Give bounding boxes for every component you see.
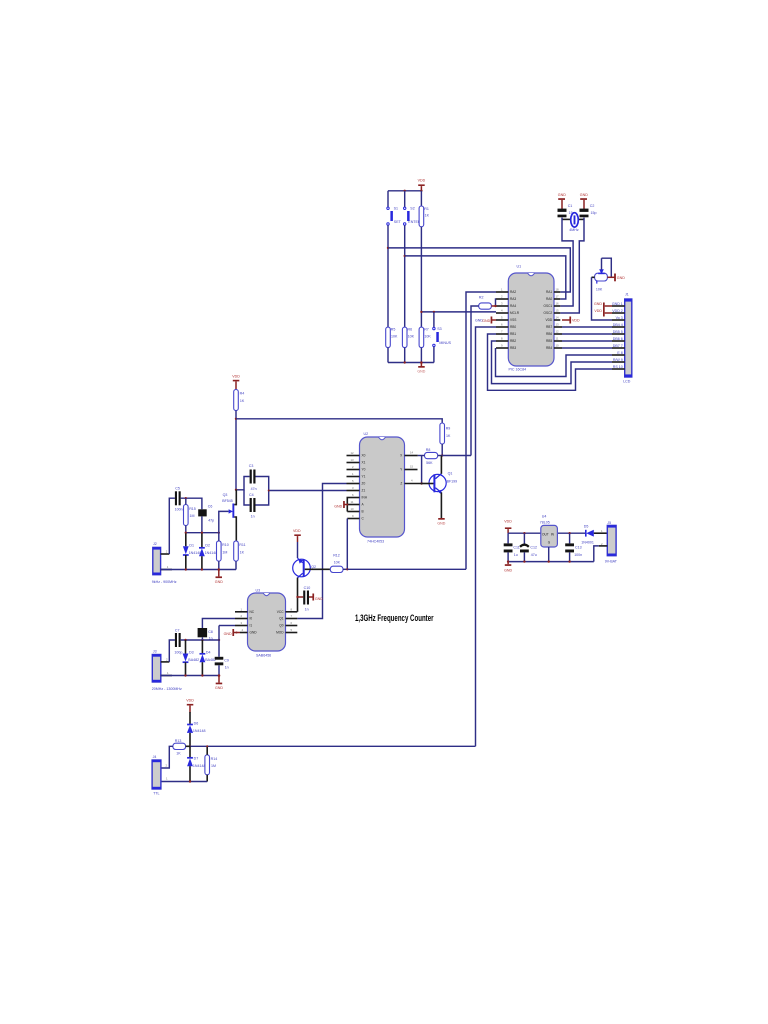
svg-text:GND: GND [504,568,512,572]
wire R12 right to junction [343,568,347,570]
svg-text:NC: NC [250,610,255,614]
svg-text:C10: C10 [304,586,311,590]
junction (201.9,569.5) [201,568,203,570]
svg-text:MCLR: MCLR [510,311,520,315]
svg-text:J5: J5 [607,521,611,525]
U1 left pin names [510,290,520,350]
wire R2 left column down to counter input node [471,306,479,456]
svg-text:GND: GND [437,522,445,526]
svg-text:100n: 100n [175,508,183,512]
svg-text:J3: J3 [153,649,157,653]
svg-text:VDD: VDD [594,309,602,313]
svg-text:RB0: RB0 [510,325,516,329]
svg-text:DB5 5: DB5 5 [613,330,623,334]
wire supply ground rail [508,561,594,563]
junction (404.7,190.8) [404,190,406,192]
power VDD (Q2) [293,529,301,542]
svg-text:Q3: Q3 [223,493,228,497]
svg-text:GND: GND [594,302,602,306]
op-amp U3 SAB6456 body [248,588,286,657]
svg-text:RA0: RA0 [546,297,552,301]
junction (185.5,675.5) [184,674,186,676]
svg-text:J1: J1 [625,292,629,296]
wire RB5 to LCD pin6 [562,340,612,342]
svg-text:9kHz - 900MHz: 9kHz - 900MHz [152,580,177,584]
svg-text:C5: C5 [175,487,180,491]
junction (569.6,533.2) [568,532,570,534]
junction (524.4,533.2) [523,532,525,534]
wire bottom rail buttons [388,362,434,364]
svg-text:X1: X1 [362,461,366,465]
wire J3 pin2 up to C7 [169,640,175,662]
svg-text:D7: D7 [194,756,199,760]
svg-text:13: 13 [351,458,355,462]
diode D2 1N4148 [199,533,217,569]
svg-text:RB4: RB4 [546,346,552,350]
svg-text:100n: 100n [574,553,582,557]
J1 pin labels [612,302,623,369]
junction (421.4,190.8) [420,190,422,192]
svg-text:1K: 1K [240,551,245,555]
resistor R5 10K [386,327,398,348]
svg-text:GND: GND [215,580,223,584]
power VDD (J1 pin2) [594,309,612,317]
svg-text:Z: Z [400,482,402,486]
svg-text:BA482: BA482 [188,658,199,662]
svg-text:GND: GND [250,631,258,635]
connector J3 (input B) [152,649,182,691]
wire gate riser [219,511,229,532]
wire R15 bottom to bias bus [185,526,187,533]
wire supply top rail left [508,532,541,534]
svg-text:X0: X0 [362,454,366,458]
svg-text:Y1: Y1 [362,475,366,479]
resistor R10 1M [217,533,229,570]
capacitor C11 1u [504,533,520,561]
junction (268.7,490.5) [268,490,270,492]
svg-text:RB7: RB7 [546,325,552,329]
wire R5 bottom [387,348,389,363]
wire R9 bottom [441,444,443,456]
crystal Q4 4MHz [562,213,584,232]
power VDD (input3) [186,699,194,713]
svg-text:INH: INH [362,496,368,500]
svg-text:100p: 100p [174,650,182,654]
svg-text:RA4: RA4 [510,304,516,308]
svg-text:OSC2: OSC2 [544,311,553,315]
svg-text:1N4148: 1N4148 [205,551,218,555]
svg-text:17: 17 [556,295,560,299]
svg-text:1K: 1K [446,434,451,438]
svg-text:1n: 1n [251,515,255,519]
svg-text:GND: GND [580,193,588,197]
svg-text:56K: 56K [426,461,433,465]
wire RA3 jog to R2 node [495,299,498,306]
junction (185.8,498.2) [185,497,187,499]
svg-text:J2: J2 [153,542,157,546]
svg-text:1N4148: 1N4148 [193,729,206,733]
U3 right pin numbers [291,607,293,632]
junction (201.9,532.7) [201,532,203,534]
svg-text:15p: 15p [591,211,597,215]
resistor R4 1K [234,390,245,411]
svg-text:U3: U3 [256,588,261,592]
junction (190,781.5) [189,780,191,782]
junction (219,640) [218,639,220,641]
junction (236,489.8) [235,489,237,491]
resistor R9 1K [440,423,451,444]
svg-text:RS 10: RS 10 [613,365,623,369]
J5 pin2 stub and wire to ground rail [594,546,608,562]
U1 right pin numbers [556,288,560,348]
svg-text:VDD: VDD [504,520,512,524]
svg-text:BA482: BA482 [205,658,216,662]
J3 pin2 stub [161,661,170,663]
svg-text:13: 13 [556,323,560,327]
svg-text:1u: 1u [514,553,518,557]
svg-text:I1: I1 [250,624,253,628]
capacitor C7 100p [174,629,182,655]
resistor R6 10K [402,327,414,348]
svg-text:14: 14 [410,451,414,455]
U1 right pin stubs 18-10 [554,292,562,348]
junction (218.8,532.7) [218,532,220,534]
svg-text:47p: 47p [208,518,214,522]
svg-text:1K: 1K [425,214,430,218]
wire R13 right [186,745,190,747]
wire node S1 to RA1 riser [388,248,570,292]
svg-text:R7: R7 [424,328,429,332]
svg-text:VCC: VCC [277,610,284,614]
transistor Q3 BF545 (FET) [222,490,236,541]
svg-text:12: 12 [556,330,560,334]
svg-text:S3: S3 [437,327,441,331]
op-amp U2 74HC4053 body [360,432,405,544]
trimpot R3 10K (LCD contrast) [595,258,612,291]
svg-text:VDD: VDD [418,179,426,183]
svg-text:Q1: Q1 [279,617,283,621]
wire node S2 to RA0 riser [405,256,566,299]
svg-text:RB6: RB6 [546,332,552,336]
svg-text:1M: 1M [211,764,216,768]
power VDD (U1 pin14) [562,317,580,324]
svg-text:R1: R1 [424,207,429,211]
svg-text:C9: C9 [224,659,229,663]
svg-text:1n: 1n [305,607,309,611]
wire input3 bottom rail [161,781,207,783]
wire trimpot wiper to LCD pin3 [592,277,613,320]
ground (U1 VSS pin5) [475,317,496,324]
transistor Q1 BF199 [422,456,458,519]
wire top rail buttons [388,190,421,192]
J3 pin1 stub [161,675,172,677]
wire R13 left to J4 pin2 [161,746,173,768]
resistor R13 1K [173,739,186,756]
svg-text:11: 11 [351,500,354,504]
wire R1 column down to MCLR node [420,227,422,327]
U2 left pin stubs [347,456,360,519]
wire C7 right along diode node [181,639,219,641]
power VDD (buttons block) [418,179,426,191]
ground (C1) [558,193,566,209]
junction (219,675.5) [218,674,221,677]
wire S2 column down [404,225,406,327]
svg-text:D6: D6 [194,721,199,725]
svg-text:1n: 1n [209,637,213,641]
wire S2 top [404,191,406,207]
pushbutton S3 MINUS [433,327,452,347]
svg-text:1,3GHz Frequency Counter: 1,3GHz Frequency Counter [355,613,434,623]
diode D6 1N4148 [187,712,206,746]
junction (508.1,561.6) [507,560,509,562]
svg-text:D2: D2 [205,543,210,547]
svg-text:1K: 1K [240,399,245,403]
svg-text:C7: C7 [175,629,180,633]
junction (442.2,455.5) [441,454,443,456]
svg-text:R15: R15 [189,507,196,511]
wire RB4 to LCD pin7 [562,347,612,349]
svg-text:10K: 10K [596,288,603,292]
svg-text:DB6 6: DB6 6 [613,337,623,341]
wire U2 X output to R8 [418,455,425,457]
wire Z1 to C3/C4 node [269,490,347,492]
wire R4 node to R9 top [236,419,442,423]
J1 pin stubs 1-10 [612,306,625,369]
svg-text:1N4148: 1N4148 [193,764,206,768]
svg-text:16: 16 [556,302,560,306]
svg-text:C1: C1 [568,204,573,208]
wire TTL input net [190,745,476,747]
svg-text:10: 10 [556,344,560,348]
wire Z0 to prescaler output [297,484,346,619]
svg-text:Q2: Q2 [311,565,316,569]
ground (U3 pin4) [224,629,240,636]
resistor R15 1M [184,505,196,526]
ground (Q1 emitter) [437,518,445,526]
svg-text:R9: R9 [446,427,451,431]
wire supply top rail right [557,532,585,534]
wire RB7 to LCD pin4 [562,326,612,328]
wire input1 ground rail [161,569,236,571]
pushbutton S2 ENTER [404,207,421,226]
U3 left pin names [250,610,258,635]
svg-text:R11: R11 [239,543,245,547]
svg-text:47u: 47u [531,553,537,557]
svg-text:C6: C6 [208,505,213,509]
ground (C10) [312,594,323,601]
svg-text:RA2: RA2 [510,290,516,294]
svg-text:C13: C13 [575,545,582,549]
wire C5 right to gate node [181,498,202,509]
svg-text:1n: 1n [225,665,229,669]
connector J2 (input A) [152,542,177,584]
wire U2 C pin to control net [346,519,348,570]
svg-text:15: 15 [410,465,414,469]
voltage regulator U4 78L05 [540,515,558,562]
svg-text:R6: R6 [408,328,413,332]
svg-text:S2: S2 [410,207,414,211]
J2 pin2 stub [161,553,170,555]
svg-text:47n: 47n [251,487,257,491]
wire S3 bottom [433,347,435,363]
svg-text:12: 12 [351,451,355,455]
svg-text:D1: D1 [189,543,194,547]
svg-text:J4: J4 [153,755,157,759]
wire RB6 to LCD pin5 [562,333,612,335]
svg-text:DB7 7: DB7 7 [613,344,623,348]
svg-text:RB5: RB5 [546,339,552,343]
junction (202.4,675.5) [201,674,203,676]
wire R4 bottom node [235,411,237,490]
U1 right pin names [544,290,553,350]
svg-text:C12: C12 [530,545,537,549]
connector J1 LCD [623,292,632,383]
svg-text:RB1: RB1 [510,332,516,336]
svg-text:R10: R10 [222,543,229,547]
junction (421.4,362.5) [420,361,423,364]
svg-text:E 8: E 8 [617,351,622,355]
U3 left pin numbers [241,607,244,632]
svg-text:R8: R8 [426,448,431,452]
junction (524.4,561.6) [523,560,525,562]
svg-text:Z1: Z1 [362,489,366,493]
svg-text:D3: D3 [189,650,194,654]
resistor R14 1M [205,746,217,781]
resistor R12 10K [330,554,343,573]
svg-text:18: 18 [556,288,560,292]
svg-text:DB4 4: DB4 4 [613,323,623,327]
wire R8 right to collector node [438,455,443,457]
J2 pin1 stub [161,569,172,571]
svg-text:9V-BAT: 9V-BAT [605,559,618,563]
junction (404.7,255.9) [404,255,406,257]
U2 left pin numbers [351,451,355,518]
junction (185.8,569.5) [185,568,187,570]
wire MCLR net [421,311,496,313]
svg-text:U2: U2 [364,432,369,436]
svg-text:Z0: Z0 [362,482,366,486]
junction (190,746.3) [189,745,191,747]
svg-text:OUT: OUT [542,533,549,537]
junction (347.3,569.3) [346,568,348,570]
svg-text:10K: 10K [391,335,398,339]
wire RB0 net down to TTL input line [476,327,497,746]
svg-text:S1: S1 [394,207,398,211]
svg-text:4MHz: 4MHz [569,228,579,232]
capacitor C1 15p [558,204,575,217]
capacitor C13 100n [565,533,582,561]
svg-text:1K: 1K [176,752,181,756]
resistor R7 10K [419,327,431,348]
U2 right pin stubs X Y Z [405,456,422,484]
resistor R2 (RA4 series) [479,295,492,309]
svg-text:C4: C4 [249,493,254,497]
wire RA2 net (to mux control) [466,292,496,569]
svg-text:BF545: BF545 [222,499,233,503]
svg-text:R2: R2 [479,295,484,299]
wire R15 top [185,498,187,504]
svg-text:VDD: VDD [232,375,240,379]
junction (433.9,311.9) [433,311,435,313]
svg-text:VDD: VDD [572,319,580,323]
U2 right pin names [400,454,403,486]
ground (U2 INH/A/B pins) [334,498,348,512]
U1 left pin numbers [501,288,503,348]
svg-text:VDD: VDD [545,318,552,322]
svg-text:LCD: LCD [623,380,631,384]
ground (input1) [215,570,223,584]
wire S1 top [387,191,389,207]
svg-text:10K: 10K [408,335,415,339]
svg-text:GND: GND [334,504,342,508]
capacitor C5 100n [175,487,183,512]
diode D7 1N4148 [187,746,205,781]
svg-text:D4: D4 [206,650,211,654]
capacitor C3 47n [249,464,257,491]
junction (421.6,483.5) [420,482,422,484]
resistor R8 56K [425,448,438,465]
junction (202.4,640) [201,639,203,641]
resistor R11 1K [234,541,246,570]
U2 left pin names [362,454,368,521]
U2 right pin numbers [410,451,414,483]
connector J5 battery [601,521,618,563]
junction (548.7,561.6) [548,560,550,562]
svg-text:VDD 2: VDD 2 [612,309,623,313]
wire S1 column down [387,225,389,327]
svg-text:B: B [362,510,364,514]
wire control net to RA2 column [347,568,466,570]
power VDD (supply) [504,520,512,534]
junction (207.2,746.3) [206,745,208,747]
wire RB1 to LCD pin10 [488,334,613,390]
wire collector node to RA4 column [442,455,471,457]
svg-text:VDD: VDD [293,529,301,533]
svg-text:RA1: RA1 [546,290,552,294]
svg-text:R13: R13 [175,739,182,743]
junction (569.6,561.6) [568,560,570,562]
svg-text:GND: GND [215,686,223,690]
svg-text:BF199: BF199 [447,480,458,484]
svg-text:R12: R12 [333,554,340,558]
svg-text:GND: GND [617,276,625,280]
svg-text:GND: GND [315,597,323,601]
svg-text:15: 15 [556,309,560,313]
svg-text:10K: 10K [334,561,341,565]
junction (236,418.8) [235,418,237,420]
svg-text:RB3: RB3 [510,346,516,350]
svg-text:R5: R5 [391,328,396,332]
ground (input2) [215,676,223,691]
U3 left pin stubs [235,612,248,633]
svg-text:C11: C11 [513,545,519,549]
diode D1 1N4148 [183,533,201,569]
svg-text:Y0: Y0 [362,468,366,472]
svg-text:R/W 9: R/W 9 [613,358,623,362]
svg-text:C8: C8 [208,630,213,634]
wire C3/C4 parallel loop [236,477,269,506]
svg-text:C2: C2 [590,204,595,208]
svg-text:I0: I0 [250,617,253,621]
svg-text:U1: U1 [517,265,522,269]
svg-text:Vo 3: Vo 3 [616,316,623,320]
op-amp U1 PIC16C84 body [508,265,554,372]
svg-text:74HC4053: 74HC4053 [367,539,384,543]
svg-text:11: 11 [556,337,559,341]
wire J2 pin2 up to C5 [169,498,175,554]
svg-text:1M: 1M [222,551,227,555]
svg-text:GND: GND [224,632,232,636]
